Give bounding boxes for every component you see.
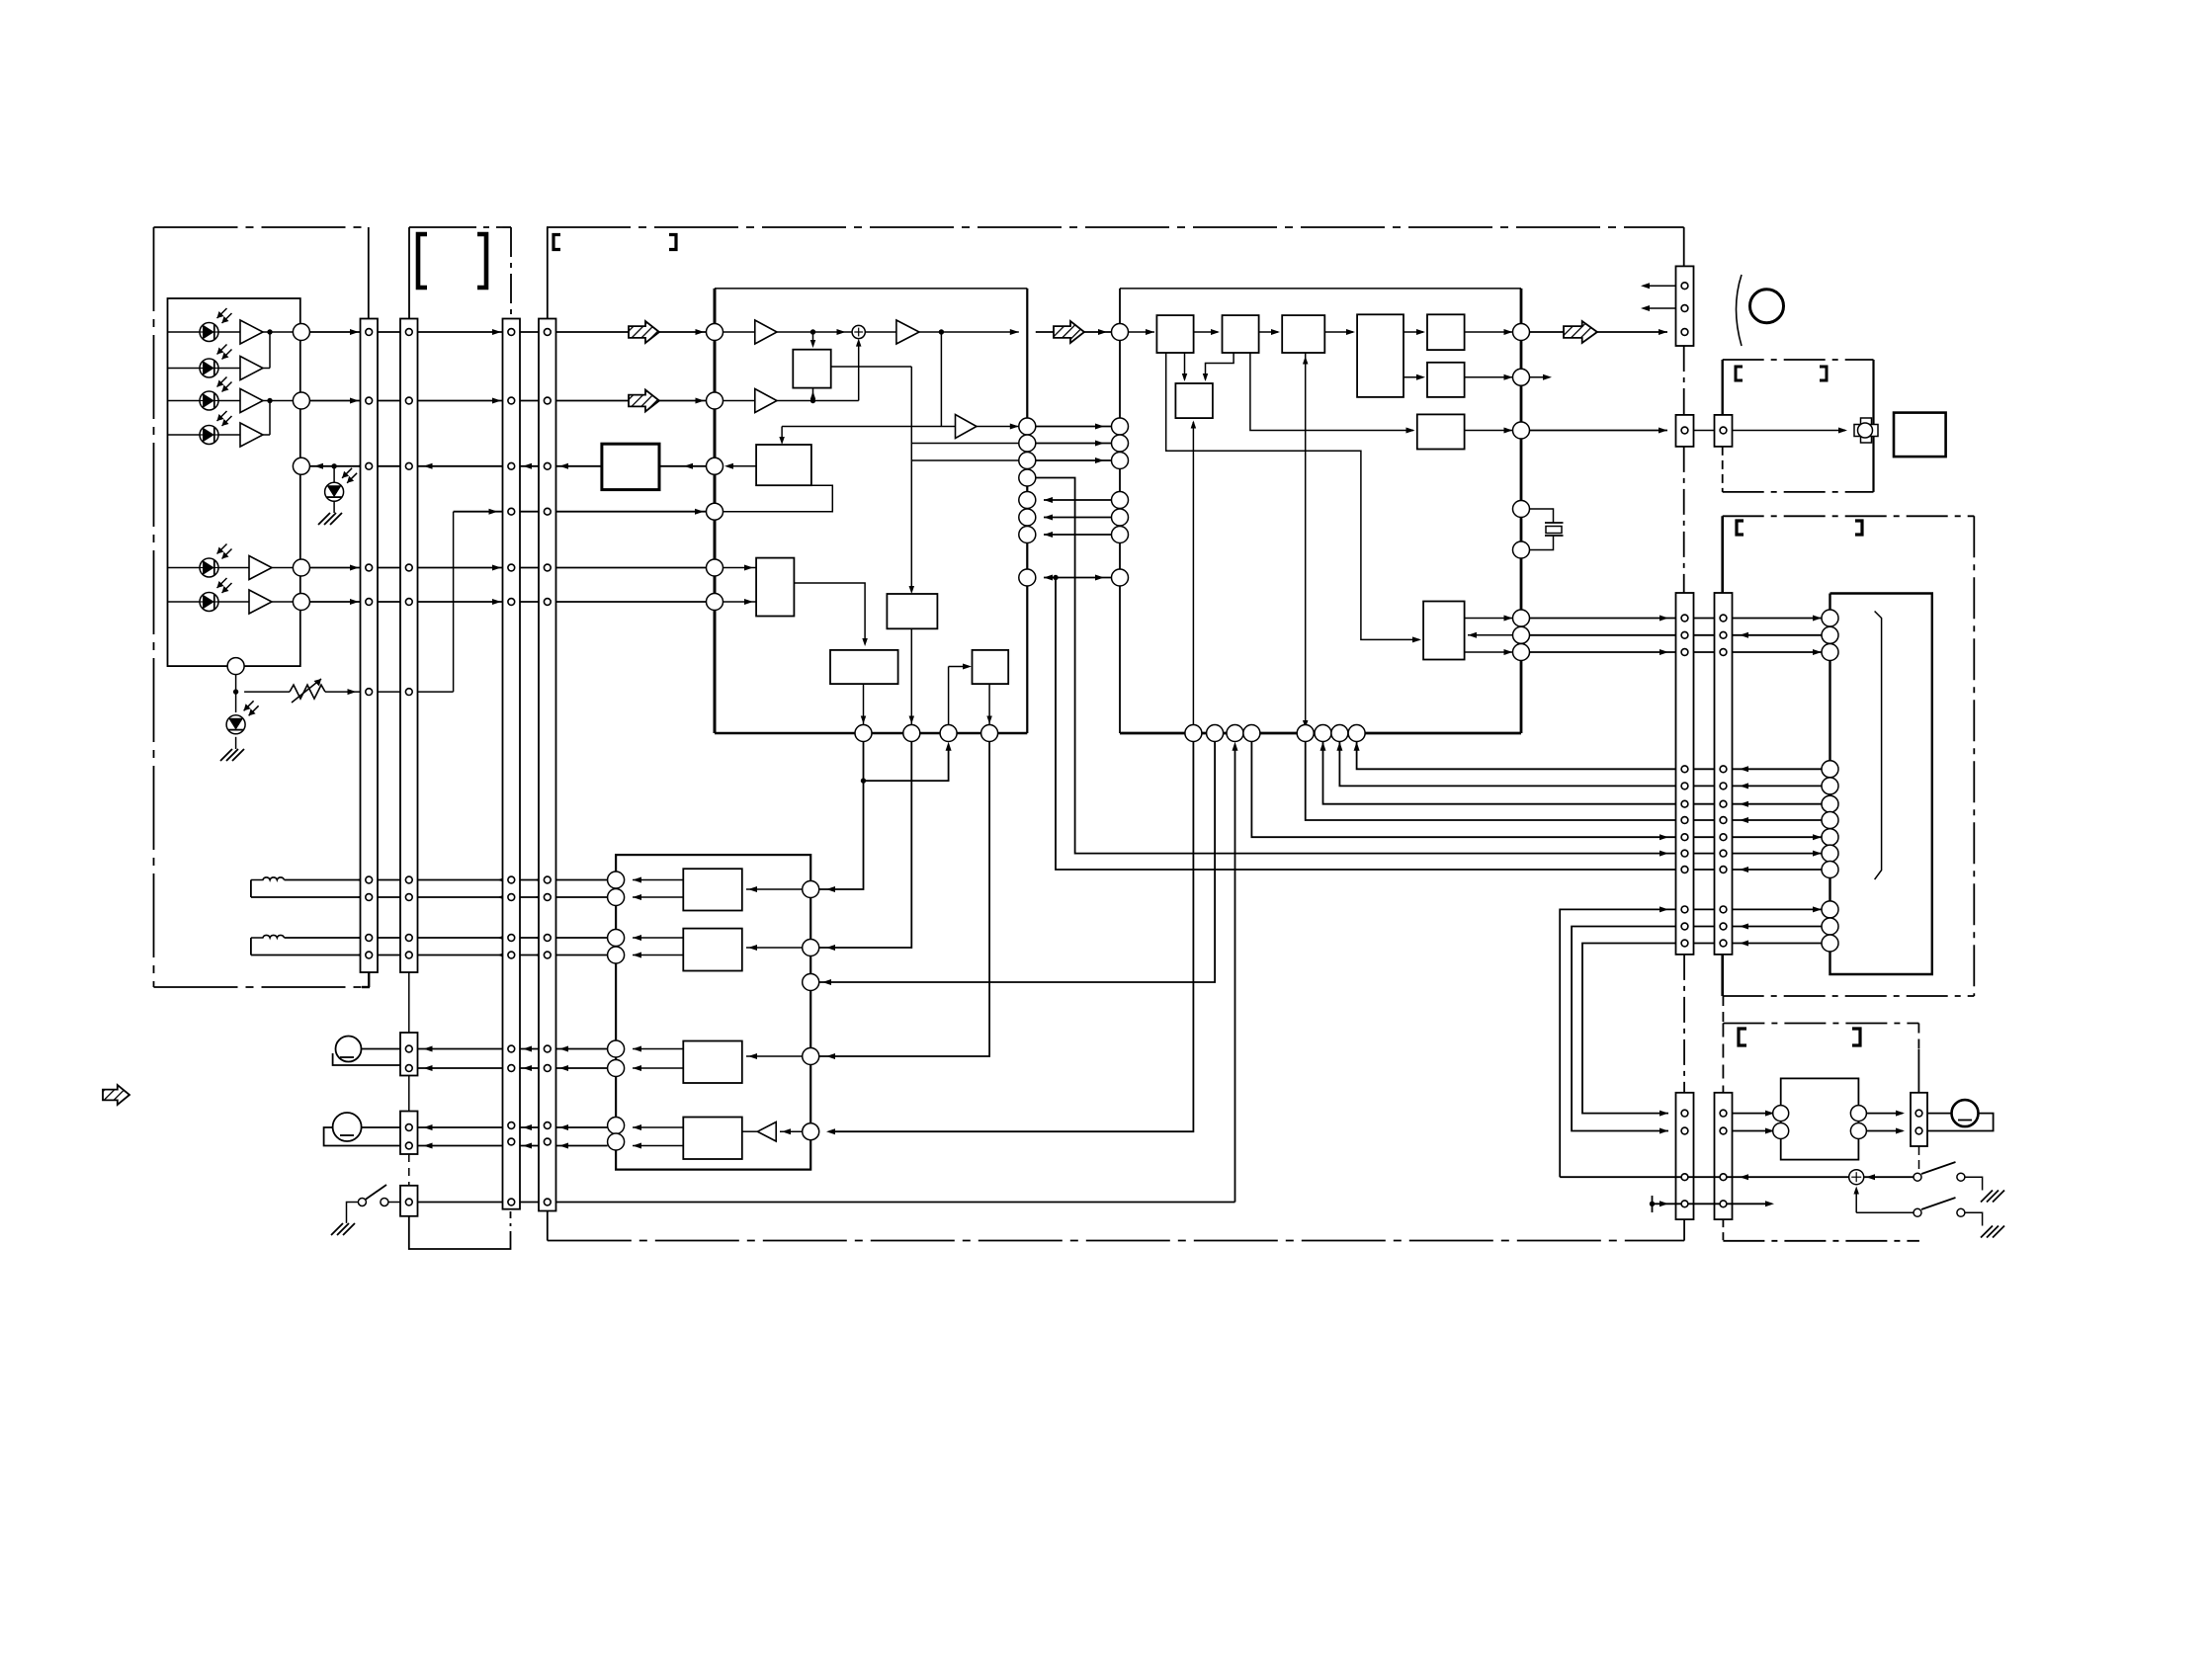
- buffer amp D: [218, 434, 240, 436]
- block E1 (focus drive): [683, 869, 742, 910]
- connector CN1 pins: [366, 329, 373, 336]
- buffer U1a (RF-A input): [723, 331, 755, 333]
- wire bottom pin1 up into D9: [1192, 422, 1194, 725]
- wire D6 to out pin: [1465, 376, 1513, 378]
- wire EQ row: [782, 426, 955, 428]
- summing junction (plus): [852, 325, 865, 338]
- ground (SW-DET): [331, 1223, 355, 1235]
- connector CN7 pin: [405, 1199, 412, 1205]
- monitor photodiode LED-M: [325, 482, 344, 501]
- node circle 5 (PD-F out): [272, 601, 293, 603]
- wire SP2 loop: [250, 938, 252, 956]
- wire PD-F lead: [168, 601, 201, 603]
- wire S3 bottom dash stub: [510, 1211, 512, 1226]
- wire switch-connector to S3 column elbow: [409, 1216, 511, 1249]
- wire RF pin1 to driver E1 (jog): [819, 742, 864, 890]
- wire key scan row 3: [1323, 742, 1823, 804]
- buffer amp E: [218, 567, 249, 569]
- wire D1 elbow to D8: [1166, 353, 1419, 639]
- summing point power (plus): [1849, 1170, 1864, 1185]
- RF amp left pins: [707, 324, 723, 341]
- node circle 1 (RF A+B): [293, 324, 309, 341]
- connector CN4 (main board, strip4): [539, 319, 556, 1211]
- wire CN9a to CN9b: [1694, 430, 1715, 432]
- dash-dot link top connector to mech connector: [1683, 346, 1685, 415]
- connector CN9b pin: [1720, 427, 1727, 434]
- wire RV to S1/S2 and up to row6: [325, 691, 362, 693]
- buffer U1b (RF-B input): [723, 400, 755, 402]
- wire M1 rails to servo driver: [418, 1048, 608, 1050]
- wire bottom pin4 to display row (track jump): [1251, 742, 1822, 838]
- wire key scan row 1: [1357, 742, 1822, 770]
- wire DSP audio out to hatched arrow and jack: [1530, 331, 1565, 333]
- main board right riser to top connector: [1683, 227, 1685, 266]
- board outline: sled mechanism box (dash-dot): [1723, 359, 1874, 361]
- wire B4 to bottom pin: [863, 684, 865, 724]
- inductor motor SP1 coil: [251, 877, 285, 880]
- block E2 (tracking drive): [683, 929, 742, 971]
- buffer amp F: [218, 601, 249, 603]
- wire E1 input: [746, 888, 803, 890]
- APC block: [602, 444, 659, 489]
- wire SW-P2 to ground: [1965, 1212, 1983, 1225]
- bracket ] mech label: [1820, 367, 1827, 380]
- wire D4 to D6: [1404, 376, 1423, 378]
- switch SW-P2 terminals: [1914, 1208, 1921, 1216]
- bracket [ power board label: [1739, 1029, 1746, 1045]
- wire servo bus C to display: [1530, 651, 1823, 653]
- motor M1 (circle with minus): [336, 1037, 362, 1062]
- wire B5 to bottom pin: [910, 628, 912, 724]
- wire SP2+ rail to servo driver: [285, 937, 363, 939]
- wires E1 outputs: [633, 879, 683, 881]
- switch SW-P2 lever: [1921, 1198, 1956, 1209]
- servo driver right pins: [803, 881, 819, 898]
- wire TE line RF to DSP: [1036, 443, 1112, 445]
- buffer U1c (post-sum): [896, 320, 919, 344]
- bracket [ mech label: [1736, 367, 1743, 380]
- connector CN2 pins: [405, 329, 412, 336]
- photodiode PD-D: [200, 426, 218, 445]
- block B2 (focus error): [756, 445, 811, 485]
- connector CN14 (battery): [1911, 1093, 1927, 1146]
- wire LED-M to ground: [333, 466, 335, 482]
- block D8 (servo interface): [1423, 602, 1465, 660]
- display IC pins: [1822, 610, 1838, 626]
- wire FE line RF to DSP: [1036, 426, 1112, 428]
- connector CN4 pins: [544, 329, 551, 336]
- wire buffers A+B sum to node 1: [263, 331, 293, 333]
- wire C7 bottom to main bottom border: [1683, 1219, 1685, 1240]
- connector CN14 pins: [1915, 1110, 1922, 1117]
- wire PD-E rail to RF amp: [309, 567, 706, 569]
- wire EQ feed down: [940, 332, 942, 427]
- IC servo driver outline: [616, 855, 810, 1170]
- wire power rail to boards (left): [1560, 1176, 1849, 1178]
- photodiode PD-B: [200, 359, 218, 377]
- wire block to CN14 row1: [1866, 1113, 1903, 1115]
- block D1 (EFM demod): [1156, 315, 1193, 353]
- wire RF-A rail (node1 to RF amp): [309, 331, 629, 333]
- wire remocon rail up from power board: [1560, 909, 1822, 1177]
- wire PD-B lead: [168, 368, 201, 370]
- photodiode PD-E: [200, 558, 218, 577]
- switch SW-DET lever: [366, 1185, 387, 1200]
- connector CN6 (motor M2): [400, 1112, 418, 1155]
- wire battery alt input to plus (up): [1855, 1189, 1857, 1212]
- signal flow arrow RF-A (hatched): [629, 321, 659, 343]
- wires PD-E/F into B3: [723, 567, 757, 569]
- connector CN11 pins: [1720, 615, 1727, 622]
- wire RF right pin stubs (448.5/466): [911, 443, 1019, 445]
- connector CN13 pins: [1720, 1110, 1727, 1117]
- connector CN5 (motor M1): [400, 1033, 418, 1076]
- wire E3 input: [746, 1055, 803, 1057]
- wire D1 down to D9: [1184, 353, 1186, 379]
- wire sense line (shared) with junction: [1044, 577, 1112, 579]
- inductor motor SP2 coil: [251, 935, 285, 938]
- wire SW-P1 to ground: [1965, 1177, 1983, 1190]
- bracket [ display board label: [1737, 521, 1744, 535]
- wire servo bus B from display: [1530, 634, 1823, 636]
- wire CN9b to spindle motor: [1733, 430, 1846, 432]
- board outline: power/battery board (dash-dot): [1723, 1023, 1918, 1025]
- block E3 (sled drive): [683, 1041, 742, 1084]
- block B3 (tracking error): [756, 558, 794, 617]
- connector CN13 (power, right): [1715, 1093, 1733, 1219]
- crystal X1 circuit: [1530, 509, 1554, 523]
- wire D5 to out pin: [1465, 331, 1513, 333]
- dash-dot link display board bottom to power board (C8 column): [1722, 996, 1724, 1024]
- wire B1 out to B5: [831, 366, 912, 368]
- board outline: display/key board (dash-dot): [1723, 515, 1975, 517]
- IC DSP outline: [1120, 288, 1521, 290]
- wire B1 bottom to RF-B row: [812, 388, 814, 401]
- wire D7 to spindle out pin: [1465, 430, 1513, 432]
- wire D8 in B: [1468, 634, 1513, 636]
- wire detect-switch long rail to DSP: [418, 1202, 1235, 1204]
- switch SW-DET terminals: [358, 1199, 366, 1206]
- node circle 3 (LD row): [293, 457, 309, 474]
- photodiode PD-A: [200, 323, 218, 342]
- photodiode PD-F: [200, 593, 218, 612]
- block B4 (TE amp): [830, 650, 898, 684]
- wire D2 down to D7 row: [1250, 353, 1413, 431]
- inverter U2 (spindle): [780, 1130, 803, 1132]
- wire sense line down to display rail: [1056, 578, 1822, 871]
- block D7 (motor driver): [1417, 414, 1465, 449]
- block D6 (DAC): [1427, 363, 1465, 397]
- wire D3 column to bottom pin: [1305, 353, 1307, 725]
- motor M2 (circle with minus): [333, 1113, 362, 1141]
- block flywheel/disc (bold): [1894, 413, 1946, 457]
- wire U1c out to RF pin: [919, 331, 1019, 333]
- switch SW-P1 lever: [1921, 1162, 1956, 1174]
- connector CN3 pins: [508, 329, 515, 336]
- spindle motor M3 (cross symbol): [1861, 418, 1872, 443]
- wire S1 riser to pickup border: [368, 227, 370, 319]
- wire laser-drive rail (APC box to node3): [309, 465, 602, 467]
- block B6 (mirror): [973, 650, 1009, 684]
- wire SW-DET to connector: [388, 1202, 400, 1204]
- wire D8 out C: [1465, 651, 1513, 653]
- buffer amp A: [218, 331, 240, 333]
- wire D1 to D2: [1194, 331, 1218, 333]
- signal flow arrow EFM (hatched): [1054, 321, 1084, 343]
- wire DEF line RF to DSP: [1036, 459, 1112, 461]
- block B5 (defect det): [887, 594, 937, 628]
- display IC internal divider with jog: [1875, 612, 1882, 880]
- wire row to SW-P2: [1856, 1211, 1914, 1213]
- ground (SW-P2): [1981, 1226, 2004, 1238]
- connector CN3 (main board, strip3): [503, 319, 521, 1209]
- connector CN9b (motor): [1715, 415, 1733, 447]
- link CN2 to CN5 to CN6 to CN7 (dash): [408, 972, 410, 1033]
- wire key scan row 2: [1339, 742, 1822, 787]
- connector CN6 pins: [405, 1124, 412, 1131]
- buffer U1d (EQ out): [956, 415, 978, 439]
- IC display driver outline: [1830, 594, 1932, 975]
- wire M2 leads to connector: [362, 1126, 400, 1128]
- wire PD-D lead: [168, 434, 201, 436]
- block D9 (PLL): [1175, 383, 1213, 418]
- node circle 6 (laser common, box bottom): [227, 658, 244, 675]
- wire spindle motor feed: [1530, 430, 1668, 432]
- wire bottom pin3 up to B6: [948, 667, 950, 725]
- dash-dot link S5 bottom to lower connector C7: [1683, 955, 1685, 1093]
- page continuation arrow (hatched, bottom left): [103, 1085, 129, 1105]
- connector CN9a pin: [1681, 427, 1688, 434]
- bracket ] main board label: [669, 235, 676, 250]
- wire RF pin4 to driver E3: [819, 742, 989, 1057]
- wire DSP out stub (mute): [1530, 376, 1549, 378]
- signal flow arrow audio (hatched): [1564, 321, 1597, 343]
- wire row6 (monitor feedback) to RF amp: [454, 511, 707, 513]
- ground (monitor diode): [318, 513, 342, 525]
- wire B6 to bottom pin4: [988, 684, 990, 724]
- node circle 2 (RF C+D): [293, 392, 309, 409]
- buffer amp C: [218, 400, 240, 402]
- wire bottom pin2 to driver focus coil amp: [819, 742, 1215, 983]
- wire focus-search line to display column: [1036, 478, 1822, 854]
- wire SW-DET to ground: [347, 1203, 359, 1223]
- block E4 (spindle drive): [683, 1118, 742, 1160]
- wire junction to LED-L and ground: [235, 692, 237, 712]
- DSP bottom pins: [1185, 725, 1202, 742]
- bracket [ lens label: [418, 234, 427, 288]
- wire bottom pin1 to driver E4 (inverted): [830, 742, 1193, 1132]
- wire row6 to B2 elbow: [723, 485, 833, 512]
- connector CN11 (display, strip6): [1715, 593, 1733, 955]
- connector CN10 (display, strip5): [1676, 593, 1694, 955]
- bracket ] power board label: [1852, 1029, 1860, 1045]
- wire servo bus A to display: [1530, 618, 1823, 620]
- block D2 (sync): [1223, 315, 1259, 353]
- main board left riser (S4 column): [547, 227, 549, 319]
- wire DSP input: [1129, 331, 1155, 333]
- laser diode LED-L: [226, 715, 245, 734]
- CN8 pin stubs out: [1645, 285, 1676, 287]
- wire block to CN14 row2: [1866, 1130, 1903, 1132]
- signal flow arrow RF-B (hatched): [629, 390, 659, 412]
- block B1 (offset/balance): [793, 350, 830, 388]
- wire D3 to D4: [1324, 331, 1353, 333]
- wire CN14 to power switch column (dash): [1918, 1146, 1920, 1172]
- wire M2 rails to servo driver: [418, 1126, 608, 1128]
- wire battery feed row2 to block: [1733, 1130, 1773, 1132]
- wire down into B2: [781, 427, 783, 442]
- bracket [ main board label: [553, 235, 560, 250]
- ground (laser diode): [220, 749, 244, 761]
- wire power aux stub row: [1652, 1196, 1654, 1212]
- wire D2 jog to D9: [1206, 353, 1234, 379]
- connector CN2 (pickup flex, strip2): [400, 319, 418, 973]
- wire E2 input: [746, 947, 803, 949]
- wire PD-C lead: [168, 400, 201, 402]
- wire buffers C+D sum to node 2: [263, 400, 293, 402]
- wire B2 out to APC row: [728, 465, 756, 467]
- main board bottom border (dash-dot): [548, 1240, 1684, 1242]
- wire lens-left riser (S2 column): [408, 227, 410, 319]
- board outline: optical pickup assembly (dash-dot): [154, 226, 369, 228]
- ground (SW-P1): [1981, 1191, 2004, 1203]
- wire to offset block B1 (down): [812, 332, 814, 345]
- photodiode PD-C: [200, 391, 218, 410]
- connector CN5 pins: [405, 1045, 412, 1052]
- board outline: lens unit top: [409, 226, 511, 228]
- wire DSP control 2 to RF: [1044, 517, 1112, 519]
- DSP right pins: [1513, 324, 1530, 341]
- wire S4 bottom to border: [547, 1211, 549, 1241]
- connector CN9a (motor): [1676, 415, 1694, 447]
- wire PD-E lead: [168, 567, 201, 569]
- servo driver left pins: [608, 872, 625, 888]
- wires E2 outputs: [633, 937, 683, 939]
- photodiode array inner box: [168, 298, 300, 666]
- node circle 4 (PD-E out): [272, 567, 293, 569]
- headphone jack bracket arc: [1737, 275, 1743, 346]
- wire PD-A lead: [168, 331, 201, 333]
- wire U1b out to summing point (up): [777, 400, 859, 402]
- block power switch/charge: [1781, 1078, 1859, 1159]
- wire D2 to D3: [1259, 331, 1278, 333]
- connector CN12 pins: [1681, 1110, 1688, 1117]
- wire B3 out to B4: [794, 583, 865, 642]
- connector CN10 pins: [1681, 615, 1688, 622]
- wire key scan row 4: [1306, 742, 1822, 821]
- connector CN1 (pickup flex, strip1): [361, 319, 379, 973]
- wire DSP control 3 to RF: [1044, 534, 1112, 536]
- IC RF amplifier outline: [715, 288, 1027, 290]
- wire RF pin2 to driver E2: [819, 742, 912, 949]
- connector CN8 pins: [1681, 283, 1688, 290]
- variable resistor RV (laser power): [244, 691, 290, 693]
- wires E3 outputs: [633, 1048, 683, 1050]
- bracket ] display board label: [1855, 521, 1862, 535]
- switch SW-P1 terminals: [1914, 1173, 1921, 1181]
- wire SP1+ rail to servo driver: [285, 879, 363, 881]
- battery BT1: [1927, 1113, 1952, 1115]
- block D3 (RAM): [1282, 315, 1324, 353]
- wire RF out to DSP (hatched arrow row): [1036, 331, 1054, 333]
- wire SP1 loop: [250, 880, 252, 898]
- buffer amp B: [218, 368, 240, 370]
- connector CN7 (detect switch): [400, 1186, 418, 1216]
- dash-dot link mech connector to S5: [1683, 447, 1685, 593]
- lens-right dash-dot riser (S3 column): [510, 227, 512, 319]
- wire battery feed row1 to block: [1733, 1113, 1773, 1115]
- connector CN12 (power, left): [1676, 1093, 1694, 1219]
- wire U1a out to summing point: [777, 331, 852, 333]
- wire APC to RF amp: [659, 465, 707, 467]
- wire key return 1 down to power board: [1572, 927, 1822, 1131]
- wire DSP control 1 to RF: [1044, 499, 1112, 501]
- headphone jack circle: [1750, 290, 1784, 323]
- RF amp right pins: [1019, 418, 1036, 435]
- wire SP1- rail to servo driver: [376, 896, 608, 898]
- block D4 (error corr): [1357, 314, 1404, 397]
- wire jog up to RF pin3: [864, 747, 949, 781]
- DSP left pins: [1112, 324, 1129, 341]
- wire SP2- rail to servo driver: [376, 955, 608, 956]
- block D5 (filter): [1427, 314, 1465, 350]
- connector CN8 (line out): [1676, 266, 1694, 346]
- wires E4 outputs: [633, 1126, 683, 1128]
- bracket ] lens label: [477, 234, 486, 288]
- wire PD-F rail to RF amp: [309, 601, 706, 603]
- wire D8 out A: [1465, 618, 1513, 620]
- wire RF-B rail (node2 to RF amp): [309, 400, 629, 402]
- wire D4 to D5: [1404, 331, 1423, 333]
- wire M1 leads to connector: [362, 1048, 401, 1050]
- board outline: main board top border (dash-dot): [547, 226, 1684, 228]
- wire node6 down to junction: [235, 675, 237, 693]
- wire S1 bottom stub to border: [368, 972, 370, 987]
- wire key return 2 down to power board: [1582, 944, 1822, 1114]
- wire battery return loop: [1927, 1114, 1994, 1131]
- RF amp bottom pins: [855, 725, 872, 742]
- power block pins: [1773, 1106, 1789, 1122]
